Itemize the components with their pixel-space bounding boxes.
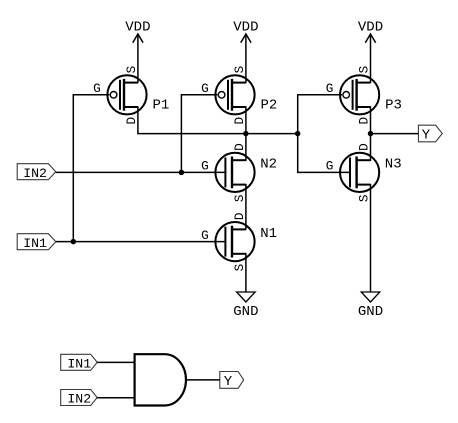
svg-text:GND: GND <box>233 304 258 320</box>
svg-text:IN2: IN2 <box>23 166 47 181</box>
svg-text:IN2: IN2 <box>67 392 91 407</box>
svg-text:S: S <box>124 66 139 74</box>
svg-text:G: G <box>201 159 209 174</box>
svg-text:VDD: VDD <box>233 20 258 36</box>
svg-text:D: D <box>232 143 247 151</box>
svg-text:S: S <box>356 194 371 202</box>
svg-text:G: G <box>93 81 101 96</box>
svg-text:G: G <box>201 228 209 243</box>
svg-text:VDD: VDD <box>125 20 150 36</box>
svg-text:G: G <box>201 81 209 96</box>
svg-text:D: D <box>356 143 371 151</box>
svg-text:P1: P1 <box>153 98 170 114</box>
svg-text:IN1: IN1 <box>67 356 91 371</box>
svg-text:D: D <box>232 212 247 220</box>
svg-text:D: D <box>232 117 247 125</box>
svg-text:N1: N1 <box>260 226 277 242</box>
svg-text:IN1: IN1 <box>23 236 47 251</box>
svg-text:S: S <box>356 66 371 74</box>
svg-text:N3: N3 <box>385 157 402 173</box>
svg-text:G: G <box>326 159 334 174</box>
svg-text:VDD: VDD <box>358 20 383 36</box>
svg-text:P2: P2 <box>261 98 278 114</box>
svg-text:GND: GND <box>358 304 383 320</box>
svg-text:P3: P3 <box>385 98 402 114</box>
svg-text:N2: N2 <box>260 157 277 173</box>
svg-text:G: G <box>326 81 334 96</box>
svg-text:S: S <box>232 66 247 74</box>
svg-text:S: S <box>232 194 247 202</box>
svg-text:S: S <box>232 264 247 272</box>
svg-text:Y: Y <box>224 374 233 390</box>
svg-text:Y: Y <box>422 128 431 144</box>
svg-text:D: D <box>356 117 371 125</box>
svg-text:D: D <box>124 117 139 125</box>
